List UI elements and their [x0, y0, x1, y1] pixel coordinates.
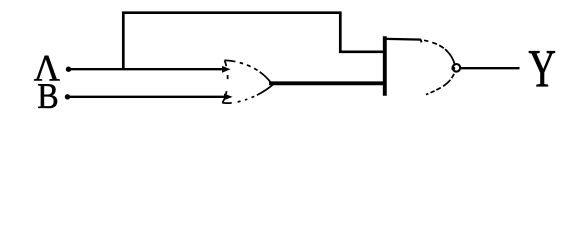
node A terminal dot: [66, 67, 71, 72]
input label A: [34, 56, 59, 81]
or-gate U1 bottom arc (part solid, part dashed): [222, 85, 273, 103]
nand-gate U2 top arc (dashed, solid near bubble): [421, 40, 455, 66]
wire NAND output to Y: [461, 67, 520, 69]
wire A: [69, 68, 223, 70]
arrowhead at OR gate input A: [222, 66, 231, 73]
nand-gate U2 top edge (solid): [387, 38, 422, 41]
arrowhead at OR gate input B: [224, 94, 233, 101]
or-gate U1 top arc (part solid, part dashed): [225, 60, 271, 82]
or-gate U1 back arc (dashed): [222, 61, 227, 103]
node B terminal dot: [65, 94, 70, 99]
nand-gate U2 back bar (thick): [383, 36, 387, 96]
nand-gate U2 bottom arc (dashed, with solid piece): [426, 72, 455, 95]
wire feedback branch from node A up and over to NAND top input: [123, 13, 383, 69]
output label Y: [529, 51, 555, 86]
input label B: [38, 84, 57, 108]
nand-gate U2 top edge end tick: [420, 40, 423, 43]
wire B: [68, 96, 225, 98]
inversion bubble at NAND output: [453, 64, 461, 72]
thick wire OR output to NAND input: [269, 81, 385, 85]
bubble left junction blob: [451, 67, 455, 71]
